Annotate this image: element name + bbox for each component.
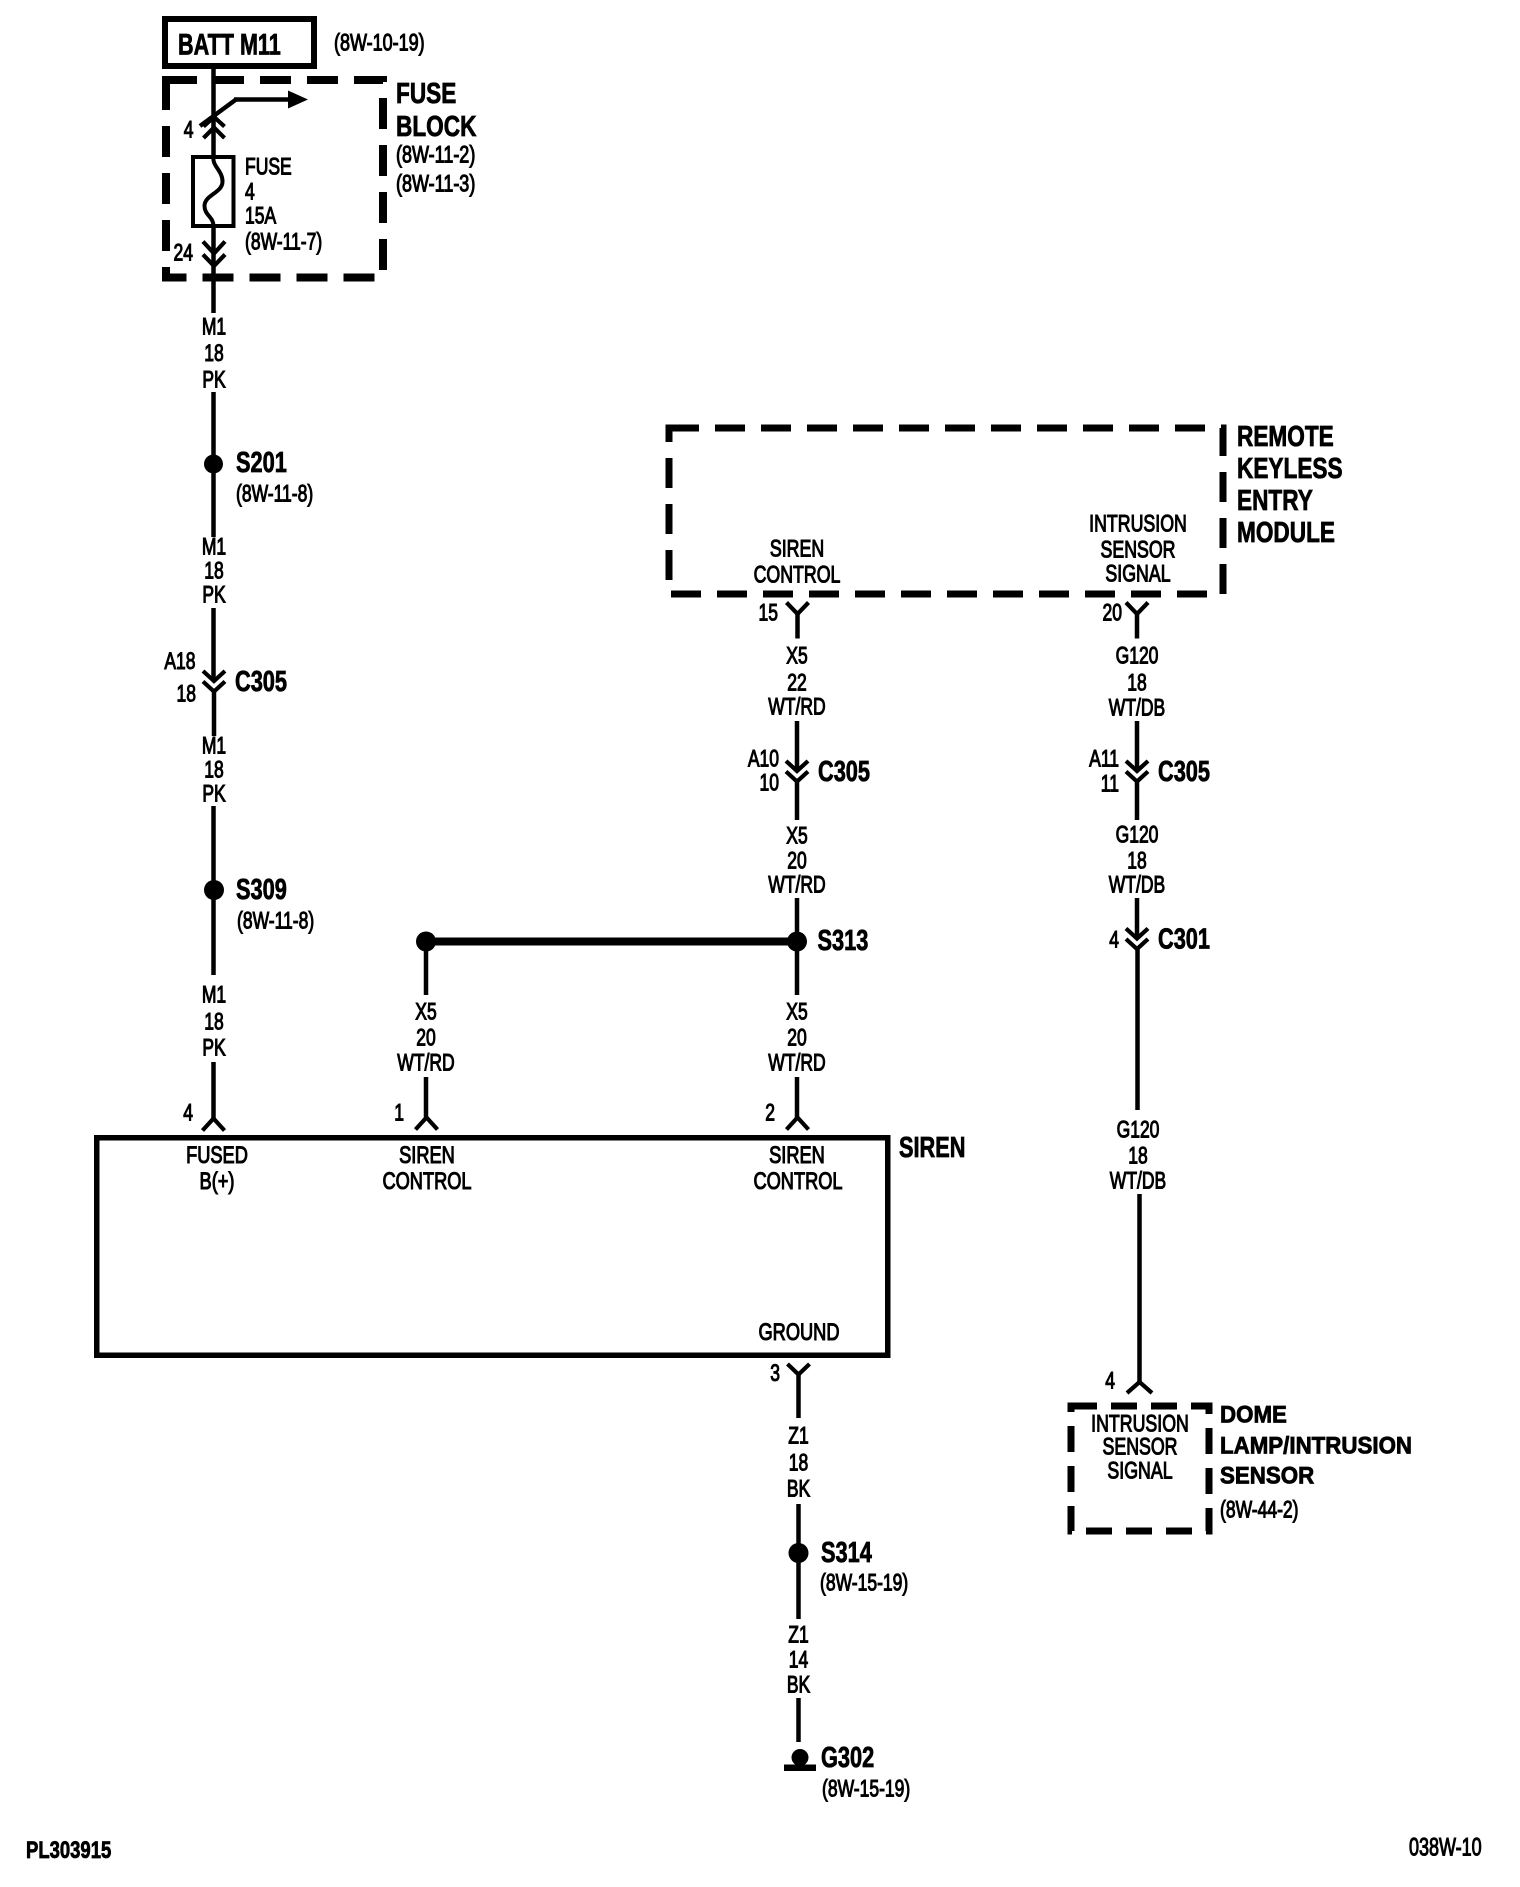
svg-text:CONTROL: CONTROL bbox=[754, 562, 841, 588]
svg-text:BK: BK bbox=[787, 1476, 810, 1502]
connector pin 24 (fuse block output cavity) bbox=[203, 242, 225, 267]
svg-text:18: 18 bbox=[1127, 848, 1146, 874]
dome box pin label INTRUSION SENSOR SIGNAL bbox=[1091, 1411, 1189, 1484]
svg-text:20: 20 bbox=[1103, 600, 1122, 626]
wire label Z1 18 BK bbox=[787, 1423, 810, 1502]
wire bbox=[424, 1077, 429, 1118]
module pin label INTRUSION SENSOR SIGNAL bbox=[1089, 511, 1187, 587]
svg-text:Z1: Z1 bbox=[788, 1423, 808, 1449]
wire bbox=[796, 1557, 801, 1619]
svg-text:ENTRY: ENTRY bbox=[1237, 483, 1313, 516]
wire label X5 22 WT/RD bbox=[768, 643, 825, 720]
svg-text:18: 18 bbox=[204, 757, 223, 783]
svg-text:SIGNAL: SIGNAL bbox=[1105, 561, 1170, 587]
svg-text:SENSOR: SENSOR bbox=[1220, 1462, 1314, 1489]
C305 cavity labels A18 / 18 bbox=[164, 648, 196, 707]
svg-text:18: 18 bbox=[204, 340, 223, 366]
svg-text:20: 20 bbox=[787, 848, 806, 874]
wire label M1 18 PK (third) bbox=[202, 733, 226, 807]
wire bbox=[1135, 721, 1140, 771]
module pin label SIREN CONTROL bbox=[754, 536, 841, 588]
connector C301 (cavity 4) bbox=[1126, 929, 1148, 950]
svg-text:18: 18 bbox=[177, 681, 196, 707]
svg-text:PK: PK bbox=[202, 1035, 225, 1061]
siren pin label SIREN CONTROL (pin 1) bbox=[382, 1141, 471, 1194]
wire bbox=[796, 1504, 801, 1553]
svg-text:S201: S201 bbox=[236, 447, 287, 479]
svg-text:C305: C305 bbox=[818, 756, 870, 788]
svg-text:15A: 15A bbox=[245, 203, 276, 229]
svg-text:BATT M11: BATT M11 bbox=[178, 27, 281, 61]
wire (S313 branch to siren control pin 1) bbox=[426, 938, 797, 946]
connector pin 4 (fuse block cavity) bbox=[204, 117, 225, 138]
wire bbox=[795, 721, 800, 771]
svg-text:15: 15 bbox=[759, 600, 778, 626]
svg-text:22: 22 bbox=[787, 670, 806, 696]
svg-text:G120: G120 bbox=[1117, 1117, 1160, 1143]
svg-text:SIREN: SIREN bbox=[769, 1141, 825, 1168]
svg-text:SIREN: SIREN bbox=[770, 536, 824, 562]
connector C305 (middle, cavity A10/10) bbox=[786, 761, 808, 782]
siren pin 4 fork bbox=[203, 1119, 225, 1131]
wire label M1 18 PK (upper) bbox=[202, 314, 226, 393]
svg-text:SIGNAL: SIGNAL bbox=[1107, 1458, 1172, 1484]
siren pin label FUSED B(+) bbox=[186, 1141, 248, 1194]
dome lamp pin 4 fork bbox=[1127, 1382, 1152, 1393]
svg-text:FUSED: FUSED bbox=[186, 1141, 248, 1168]
wire fuse to fuse block output bbox=[211, 226, 216, 313]
svg-text:A18: A18 bbox=[164, 648, 195, 674]
svg-text:20: 20 bbox=[416, 1025, 435, 1051]
svg-text:CONTROL: CONTROL bbox=[382, 1167, 471, 1194]
svg-text:CONTROL: CONTROL bbox=[753, 1167, 842, 1194]
wire bbox=[795, 1077, 800, 1118]
svg-text:(8W-15-19): (8W-15-19) bbox=[822, 1776, 910, 1802]
wire label Z1 14 BK bbox=[787, 1622, 810, 1698]
wire BATT M11 to fuse bbox=[211, 66, 216, 157]
svg-text:2: 2 bbox=[765, 1100, 775, 1126]
svg-text:WT/RD: WT/RD bbox=[768, 872, 825, 898]
wire bbox=[424, 942, 429, 996]
svg-text:REMOTE: REMOTE bbox=[1237, 419, 1334, 452]
svg-text:(8W-11-2): (8W-11-2) bbox=[396, 142, 475, 168]
fuse block dashed box bbox=[166, 80, 383, 278]
svg-text:4: 4 bbox=[184, 117, 194, 143]
svg-text:WT/RD: WT/RD bbox=[397, 1050, 454, 1076]
splice S314 bbox=[789, 1537, 909, 1596]
wire label X5 20 WT/RD bbox=[768, 823, 825, 898]
wire label G120 18 WT/DB (third) bbox=[1110, 1117, 1166, 1194]
svg-text:4: 4 bbox=[1105, 1368, 1115, 1394]
dome lamp name DOME LAMP/INTRUSION SENSOR bbox=[1220, 1401, 1412, 1524]
svg-text:S309: S309 bbox=[236, 874, 287, 906]
wire bbox=[211, 1062, 216, 1118]
splice S309 bbox=[204, 874, 314, 934]
svg-text:(8W-11-7): (8W-11-7) bbox=[245, 229, 322, 255]
svg-text:DOME: DOME bbox=[1220, 1401, 1287, 1428]
wire bbox=[1135, 898, 1140, 938]
svg-text:18: 18 bbox=[204, 1009, 223, 1035]
svg-text:(8W-10-19): (8W-10-19) bbox=[334, 30, 425, 56]
module name REMOTE KEYLESS ENTRY MODULE bbox=[1237, 419, 1343, 548]
svg-text:PK: PK bbox=[202, 367, 225, 393]
svg-text:FUSE: FUSE bbox=[396, 76, 456, 109]
svg-text:GROUND: GROUND bbox=[759, 1318, 840, 1345]
svg-text:S314: S314 bbox=[821, 1537, 872, 1569]
dome lamp/intrusion sensor dashed box bbox=[1071, 1406, 1209, 1531]
svg-text:WT/RD: WT/RD bbox=[768, 1050, 825, 1076]
svg-text:FUSE: FUSE bbox=[245, 154, 292, 180]
ground G302 bbox=[784, 1742, 910, 1802]
svg-text:WT/DB: WT/DB bbox=[1110, 1168, 1166, 1194]
svg-text:(8W-11-3): (8W-11-3) bbox=[396, 171, 475, 197]
svg-text:20: 20 bbox=[787, 1025, 806, 1051]
svg-text:PL303915: PL303915 bbox=[26, 1837, 111, 1864]
C305 cavity labels A10 / 10 bbox=[748, 746, 779, 796]
svg-text:SIREN: SIREN bbox=[899, 1132, 965, 1164]
svg-text:18: 18 bbox=[789, 1450, 808, 1476]
svg-text:18: 18 bbox=[1127, 670, 1146, 696]
svg-text:SENSOR: SENSOR bbox=[1100, 537, 1175, 563]
wire label G120 18 WT/DB (second) bbox=[1109, 822, 1165, 898]
wire label X5 20 WT/RD (right branch) bbox=[768, 999, 825, 1076]
wire bbox=[211, 392, 216, 462]
svg-text:038W-10: 038W-10 bbox=[1409, 1833, 1482, 1862]
module pin 15 fork bbox=[787, 603, 809, 639]
siren box bbox=[97, 1138, 888, 1356]
branch arrow to other circuits bbox=[200, 91, 308, 127]
wire bbox=[211, 608, 216, 681]
wire bbox=[795, 781, 800, 820]
svg-text:A11: A11 bbox=[1089, 746, 1119, 772]
siren pin label SIREN CONTROL (pin 2) bbox=[753, 1141, 842, 1194]
svg-text:18: 18 bbox=[204, 558, 223, 584]
fuse block label FUSE BLOCK bbox=[396, 76, 477, 197]
svg-text:SENSOR: SENSOR bbox=[1102, 1434, 1177, 1460]
wire bbox=[211, 466, 216, 537]
svg-text:X5: X5 bbox=[786, 643, 807, 669]
siren pin 3 fork bbox=[788, 1364, 810, 1418]
svg-text:(8W-11-8): (8W-11-8) bbox=[237, 908, 314, 934]
wire bbox=[1135, 949, 1140, 1110]
svg-text:M1: M1 bbox=[202, 314, 226, 340]
right column: wire label G120 18 WT/DB bbox=[1109, 643, 1165, 721]
splice S201 bbox=[204, 447, 313, 507]
siren pin 1 fork bbox=[416, 1118, 438, 1130]
svg-text:C301: C301 bbox=[1158, 924, 1210, 956]
svg-text:(8W-44-2): (8W-44-2) bbox=[1220, 1497, 1298, 1523]
svg-text:PK: PK bbox=[202, 781, 225, 807]
svg-text:4: 4 bbox=[245, 179, 255, 205]
svg-text:M1: M1 bbox=[202, 733, 226, 759]
svg-text:Z1: Z1 bbox=[788, 1622, 808, 1648]
svg-text:4: 4 bbox=[1109, 927, 1119, 953]
svg-text:KEYLESS: KEYLESS bbox=[1237, 451, 1343, 484]
wire label M1 18 PK (second) bbox=[202, 534, 226, 608]
svg-text:WT/RD: WT/RD bbox=[768, 694, 825, 720]
siren pin 2 fork bbox=[787, 1118, 809, 1130]
svg-text:C305: C305 bbox=[1158, 756, 1210, 788]
wire label X5 20 WT/RD (left branch) bbox=[397, 999, 454, 1076]
connector C305 (right, cavity A11/11) bbox=[1126, 761, 1148, 782]
remote keyless entry module dashed box bbox=[669, 428, 1223, 594]
svg-text:WT/DB: WT/DB bbox=[1109, 872, 1165, 898]
svg-text:BK: BK bbox=[787, 1672, 810, 1698]
wire bbox=[1137, 1194, 1142, 1383]
svg-text:X5: X5 bbox=[786, 999, 807, 1025]
svg-text:WT/DB: WT/DB bbox=[1109, 695, 1165, 721]
svg-text:11: 11 bbox=[1101, 771, 1119, 797]
svg-text:C305: C305 bbox=[235, 666, 287, 698]
svg-text:14: 14 bbox=[789, 1647, 809, 1673]
BATT M11 feed box bbox=[165, 19, 314, 66]
svg-text:BLOCK: BLOCK bbox=[396, 109, 477, 142]
svg-text:X5: X5 bbox=[415, 999, 436, 1025]
junction node bbox=[416, 932, 436, 952]
svg-text:B(+): B(+) bbox=[200, 1167, 235, 1194]
fuse value label bbox=[245, 154, 322, 255]
svg-text:M1: M1 bbox=[202, 534, 226, 560]
svg-text:S313: S313 bbox=[818, 925, 869, 957]
svg-text:SIREN: SIREN bbox=[399, 1141, 455, 1168]
module pin 20 fork bbox=[1126, 603, 1148, 639]
svg-text:18: 18 bbox=[1128, 1143, 1147, 1169]
svg-text:M1: M1 bbox=[202, 982, 226, 1008]
svg-text:4: 4 bbox=[183, 1100, 193, 1126]
wire bbox=[795, 898, 800, 941]
svg-text:A10: A10 bbox=[748, 746, 779, 772]
wire bbox=[211, 806, 216, 975]
svg-text:X5: X5 bbox=[786, 823, 807, 849]
svg-text:G120: G120 bbox=[1116, 822, 1159, 848]
connector C305 (left, cavity A18/18) bbox=[203, 671, 225, 692]
svg-text:(8W-15-19): (8W-15-19) bbox=[820, 1570, 908, 1596]
svg-text:MODULE: MODULE bbox=[1237, 515, 1335, 548]
svg-text:(8W-11-8): (8W-11-8) bbox=[236, 481, 313, 507]
svg-text:G120: G120 bbox=[1116, 643, 1159, 669]
svg-text:PK: PK bbox=[202, 582, 225, 608]
wire (S313 down to siren control pin 2) bbox=[795, 945, 800, 995]
wire bbox=[796, 1698, 801, 1742]
svg-text:G302: G302 bbox=[821, 1742, 874, 1774]
fuse 4 15A bbox=[193, 157, 234, 226]
svg-text:3: 3 bbox=[770, 1360, 780, 1386]
C305 cavity labels A11 / 11 bbox=[1089, 746, 1119, 797]
wire bbox=[1135, 781, 1140, 820]
svg-text:24: 24 bbox=[174, 240, 194, 266]
svg-text:10: 10 bbox=[760, 770, 779, 796]
wire label M1 18 PK (fourth) bbox=[202, 982, 226, 1061]
svg-text:INTRUSION: INTRUSION bbox=[1089, 511, 1187, 537]
svg-text:1: 1 bbox=[394, 1100, 404, 1126]
splice S313 bbox=[787, 925, 868, 957]
svg-text:LAMP/INTRUSION: LAMP/INTRUSION bbox=[1220, 1432, 1412, 1459]
